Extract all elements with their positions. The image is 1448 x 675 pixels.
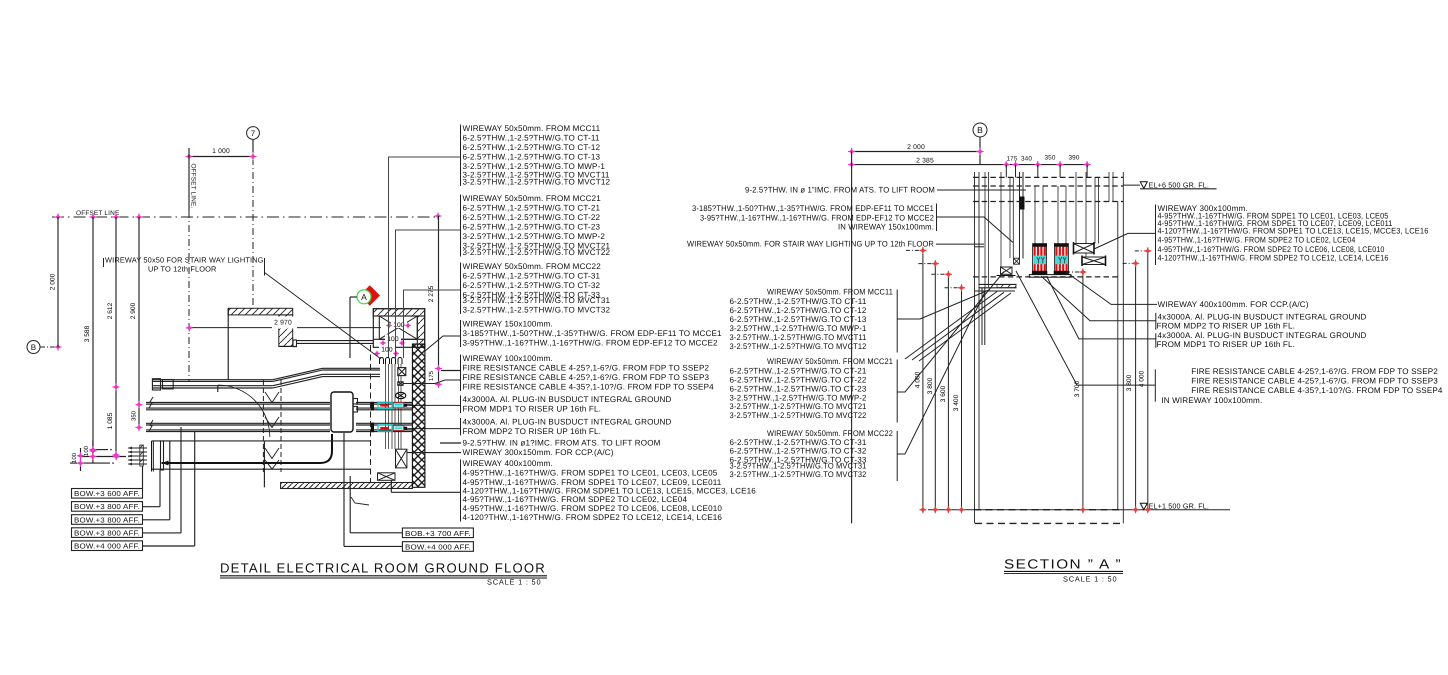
section dim verticals right [1135, 263, 1137, 509]
svg-text:9-2.5?THW. IN ø1?IMC. FROM ATS: 9-2.5?THW. IN ø1?IMC. FROM ATS. TO LIFT … [463, 439, 661, 448]
svg-text:4-120?THW.,1-16?THW/G. FROM SD: 4-120?THW.,1-16?THW/G. FROM SDPE2 TO LCE… [1158, 254, 1389, 263]
svg-text:WIREWAY 50x50 FOR STAIR WAY LI: WIREWAY 50x50 FOR STAIR WAY LIGHTING [105, 256, 264, 265]
dimension 2 900 / 350 vertical [138, 217, 140, 428]
svg-text:2 275: 2 275 [428, 285, 435, 302]
svg-text:3 800: 3 800 [927, 377, 934, 394]
svg-text:WIREWAY 50x50mm. FROM MCC21: WIREWAY 50x50mm. FROM MCC21 [767, 357, 893, 366]
busduct riser housing [162, 434, 333, 463]
section wall/conduit line 11 [1042, 186, 1044, 244]
wireway xbox right 1 [1074, 244, 1095, 254]
svg-text:6-2.5?THW.,1-2.5?THW/G.TO CT-1: 6-2.5?THW.,1-2.5?THW/G.TO CT-11 [463, 134, 600, 143]
svg-text:175: 175 [1006, 156, 1017, 163]
BOB / BOW boxes bottom center [402, 528, 473, 538]
wireway xbox left [1001, 267, 1013, 274]
svg-text:3-2.5?THW.,1-2.5?THW/G.TO MVCT: 3-2.5?THW.,1-2.5?THW/G.TO MVCT32 [730, 470, 867, 479]
floor hatched strip [281, 483, 413, 489]
offset line horizontal [52, 216, 439, 218]
svg-text:3-185?THW.,1-50?THW.,1-35?THW/: 3-185?THW.,1-50?THW.,1-35?THW/G. FROM ED… [463, 329, 723, 338]
svg-text:3-2.5?THW.,1-2.5?THW/G.TO MVCT: 3-2.5?THW.,1-2.5?THW/G.TO MVCT12 [463, 178, 611, 187]
svg-text:350: 350 [131, 410, 138, 421]
svg-text:6-2.5?THW.,1-2.5?THW/G.TO CT-3: 6-2.5?THW.,1-2.5?THW/G.TO CT-32 [730, 447, 867, 456]
grid circle 7 [247, 127, 260, 140]
grid 7 stub [252, 140, 254, 153]
svg-text:FIRE RESISTANCE CABLE 4-25?,1-: FIRE RESISTANCE CABLE 4-25?,1-6?/G. FROM… [1191, 367, 1438, 376]
conduit pair A [146, 402, 330, 404]
svg-text:350: 350 [1044, 155, 1055, 162]
section wall/conduit line 9 [1022, 172, 1024, 259]
svg-text:WIREWAY 50x50mm. FROM MCC11: WIREWAY 50x50mm. FROM MCC11 [767, 288, 893, 297]
wall top-left hatched [228, 308, 293, 315]
svg-text:3-2.5?THW.,1-2.5?THW/G.TO MVCT: 3-2.5?THW.,1-2.5?THW/G.TO MVCT32 [463, 306, 611, 315]
svg-text:FROM MDP2 TO RISER UP 16th FL.: FROM MDP2 TO RISER UP 16th FL. [1157, 322, 1296, 331]
shelf bracket [979, 283, 1017, 285]
wireway run along wall [297, 340, 374, 342]
section wall/conduit line 5 [1000, 172, 1002, 268]
busduct plan symbol 1 [378, 402, 392, 408]
svg-text:FIRE RESISTANCE CABLE 4-25?,1-: FIRE RESISTANCE CABLE 4-25?,1-6?/G. FROM… [463, 364, 710, 373]
svg-text:6-2.5?THW.,1-2.5?THW/G.TO CT-1: 6-2.5?THW.,1-2.5?THW/G.TO CT-13 [730, 315, 867, 324]
section wall/conduit line 3 [984, 172, 986, 288]
svg-text:3-95?THW.,1-16?THW.,1-16?THW/G: 3-95?THW.,1-16?THW.,1-16?THW/G. FROM EDP… [700, 214, 934, 223]
shaft dashed rails [262, 380, 264, 472]
leaders into right text column [388, 156, 461, 158]
section wall/conduit line 13 [1065, 186, 1067, 244]
leaders to 4x3000A notes [407, 404, 461, 406]
svg-text:SCALE 1 : 50: SCALE 1 : 50 [487, 578, 541, 587]
EL+6 level [1140, 182, 1147, 189]
svg-text:3 600: 3 600 [940, 385, 947, 402]
svg-text:100: 100 [83, 445, 90, 456]
stair lighting leader [265, 273, 382, 360]
svg-text:4-95?THW.,1-16?THW/G. FROM SDP: 4-95?THW.,1-16?THW/G. FROM SDPE2 TO LCE0… [1158, 245, 1385, 254]
conduit break marks [149, 397, 153, 408]
svg-text:4-95?THW.,1-16?THW/G. FROM SDP: 4-95?THW.,1-16?THW/G. FROM SDPE1 TO LCE0… [463, 469, 718, 478]
svg-text:4-120?THW.,1-16?THW/G. FROM SD: 4-120?THW.,1-16?THW/G. FROM SDPE1 TO LCE… [1158, 226, 1429, 235]
svg-text:4x3000A. Al. PLUG-IN BUSDUCT I: 4x3000A. Al. PLUG-IN BUSDUCT INTEGRAL GR… [1158, 312, 1367, 321]
svg-text:3-2.5?THW.,1-2.5?THW/G.TO MVCT: 3-2.5?THW.,1-2.5?THW/G.TO MVCT31 [463, 296, 611, 305]
svg-text:WIREWAY 50x50mm. FROM MCC21: WIREWAY 50x50mm. FROM MCC21 [463, 194, 602, 203]
EDP leader [937, 217, 1014, 243]
section wall/conduit line 6 [1009, 177, 1011, 258]
section wall/conduit line 8 [1019, 172, 1021, 259]
shelf diagonals [905, 292, 1011, 362]
svg-text:BOW.+4 000 AFF.: BOW.+4 000 AFF. [74, 542, 140, 551]
svg-text:FIRE RESISTANCE CABLE 4-25?,1-: FIRE RESISTANCE CABLE 4-25?,1-6?/G. FROM… [463, 373, 710, 382]
column 100 dims magenta [391, 321, 407, 329]
svg-text:4-95?THW.,1-16?THW/G. FROM SDP: 4-95?THW.,1-16?THW/G. FROM SDPE2 TO LCE0… [463, 495, 688, 504]
dimension 1 000 [189, 156, 254, 158]
svg-text:2 000: 2 000 [50, 273, 57, 290]
svg-text:WIREWAY 400x100mm.: WIREWAY 400x100mm. [463, 459, 553, 468]
svg-text:WIREWAY 50x50mm. FOR STAIR WAY: WIREWAY 50x50mm. FOR STAIR WAY LIGHTING … [687, 239, 934, 248]
svg-text:B: B [31, 343, 37, 352]
wireway caps below column [380, 358, 384, 365]
svg-text:FROM MDP1 TO RISER UP 16th FL.: FROM MDP1 TO RISER UP 16th FL. [463, 405, 602, 414]
column top hatched [373, 309, 424, 348]
conduit dark blob [1019, 197, 1024, 210]
svg-text:4-95?THW.,1-16?THW/G. FROM SDP: 4-95?THW.,1-16?THW/G. FROM SDPE2 TO LCE0… [463, 504, 723, 513]
svg-text:3-2.5?THW.,1-2.5?THW/G.TO MVCT: 3-2.5?THW.,1-2.5?THW/G.TO MVCT12 [730, 342, 867, 351]
section wall/conduit line 15 [1085, 172, 1087, 258]
svg-text:6-2.5?THW.,1-2.5?THW/G.TO CT-2: 6-2.5?THW.,1-2.5?THW/G.TO CT-22 [730, 375, 867, 384]
section wall/conduit line 4 [988, 172, 990, 288]
wire riser x=385.5 [385, 364, 387, 449]
right wall crosshatched [412, 344, 425, 487]
svg-text:FIRE RESISTANCE CABLE 4-25?,1-: FIRE RESISTANCE CABLE 4-25?,1-6?/G. FROM… [1191, 377, 1438, 386]
wireway crossing wall boxes [398, 368, 406, 376]
svg-text:WIREWAY 100x100mm.: WIREWAY 100x100mm. [463, 354, 553, 363]
svg-text:2 612: 2 612 [107, 302, 114, 319]
svg-text:IN WIREWAY 150x100mm.: IN WIREWAY 150x100mm. [838, 223, 934, 232]
svg-text:6-2.5?THW.,1-2.5?THW/G.TO CT-2: 6-2.5?THW.,1-2.5?THW/G.TO CT-23 [730, 385, 867, 394]
svg-text:100: 100 [381, 347, 393, 354]
dimension 3 588 vertical [92, 217, 94, 451]
svg-text:BOW.+3 800 AFF.: BOW.+3 800 AFF. [74, 502, 140, 511]
ground line EL+1 [928, 509, 1230, 511]
section wall/conduit line 17 [1098, 177, 1100, 244]
leader verticals from text blocks [388, 157, 390, 358]
section wall/conduit line 12 [1057, 186, 1059, 244]
small dims 100/100 lower left [92, 440, 94, 463]
svg-text:390: 390 [1068, 155, 1079, 162]
svg-text:3-2.5?THW.,1-2.5?THW/G.TO MVCT: 3-2.5?THW.,1-2.5?THW/G.TO MVCT22 [463, 248, 611, 257]
svg-text:6-2.5?THW.,1-2.5?THW/G.TO CT-3: 6-2.5?THW.,1-2.5?THW/G.TO CT-31 [730, 438, 867, 447]
svg-text:3-185?THW.,1-50?THW.,1-35?THW/: 3-185?THW.,1-50?THW.,1-35?THW/G. FROM ED… [692, 204, 934, 213]
conduit pair B [146, 422, 330, 424]
busduct plan symbol 2 [378, 425, 392, 431]
svg-text:BOW.+3 600 AFF.: BOW.+3 600 AFF. [74, 489, 140, 498]
extension line [851, 152, 853, 524]
svg-text:OFFSET LINE: OFFSET LINE [76, 210, 120, 217]
svg-text:A: A [361, 292, 367, 302]
fan of wireway lines entering room [128, 447, 147, 449]
svg-text:UP TO 12th FLOOR: UP TO 12th FLOOR [148, 265, 217, 274]
svg-text:340: 340 [1021, 156, 1032, 163]
svg-text:FROM MDP2 TO RISER UP 16th FL.: FROM MDP2 TO RISER UP 16th FL. [463, 427, 602, 436]
section wall/conduit line 14 [1075, 172, 1077, 244]
svg-text:WIREWAY 50x50mm. FROM MCC22: WIREWAY 50x50mm. FROM MCC22 [767, 429, 893, 438]
svg-text:3 800: 3 800 [1126, 374, 1133, 391]
room lower walls [152, 440, 371, 442]
svg-text:SECTION ” A ”: SECTION ” A ” [1004, 557, 1122, 572]
svg-text:3 700: 3 700 [1074, 380, 1081, 397]
grid 7 centerline [252, 158, 254, 310]
offset line vertical [188, 148, 190, 211]
svg-text:3 588: 3 588 [84, 325, 91, 342]
svg-text:4x3000A. Al. PLUG-IN BUSDUCT I: 4x3000A. Al. PLUG-IN BUSDUCT INTEGRAL GR… [463, 395, 672, 404]
wire riser x=395 [394, 364, 396, 449]
dimension 2 000 vertical [57, 217, 59, 347]
svg-text:6-2.5?THW.,1-2.5?THW/G.TO CT-2: 6-2.5?THW.,1-2.5?THW/G.TO CT-21 [730, 367, 867, 376]
EL+1 level [1140, 503, 1147, 510]
svg-text:3-2.5?THW.,1-2.5?THW/G.TO MVCT: 3-2.5?THW.,1-2.5?THW/G.TO MVCT21 [730, 402, 867, 411]
section wall/conduit line 1 [974, 172, 976, 523]
svg-text:2 970: 2 970 [274, 320, 292, 327]
svg-text:WIREWAY 150x100mm.: WIREWAY 150x100mm. [463, 320, 553, 329]
svg-text:BOW.+3 800 AFF.: BOW.+3 800 AFF. [74, 515, 140, 524]
section dim verticals left [922, 250, 924, 509]
svg-text:6-2.5?THW.,1-2.5?THW/G.TO CT-1: 6-2.5?THW.,1-2.5?THW/G.TO CT-12 [463, 143, 601, 152]
busduct base plate [1029, 275, 1071, 278]
svg-text:FIRE RESISTANCE CABLE 4-35?,1-: FIRE RESISTANCE CABLE 4-35?,1-10?/G. FRO… [1191, 386, 1443, 395]
section wall/conduit line 21 [1122, 172, 1124, 523]
svg-text:6-2.5?THW.,1-2.5?THW/G.TO CT-2: 6-2.5?THW.,1-2.5?THW/G.TO CT-22 [463, 213, 601, 222]
svg-text:DETAIL ELECTRICAL ROOM GROUND: DETAIL ELECTRICAL ROOM GROUND FLOOR [220, 561, 546, 576]
svg-text:6-2.5?THW.,1-2.5?THW/G.TO CT-3: 6-2.5?THW.,1-2.5?THW/G.TO CT-32 [463, 281, 601, 290]
svg-text:BOB.+3 700 AFF.: BOB.+3 700 AFF. [405, 529, 471, 538]
section marker A [360, 285, 381, 306]
section wall/conduit line 16 [1094, 177, 1096, 244]
svg-text:3-2.5?THW.,1-2.5?THW/G.TO MVCT: 3-2.5?THW.,1-2.5?THW/G.TO MVCT22 [730, 411, 867, 420]
wire riser x=398.5 [398, 364, 400, 449]
break mark [351, 497, 369, 505]
wireway xbox right 2 [1082, 257, 1106, 265]
svg-text:EL+6 500 GR. FL.: EL+6 500 GR. FL. [1149, 180, 1210, 189]
svg-text:3-2.5?THW.,1-2.5?THW/G.TO MWP-: 3-2.5?THW.,1-2.5?THW/G.TO MWP-1 [730, 324, 867, 333]
section wall/conduit line 7 [1012, 177, 1014, 258]
svg-text:6-2.5?THW.,1-2.5?THW/G.TO CT-3: 6-2.5?THW.,1-2.5?THW/G.TO CT-31 [463, 272, 601, 281]
svg-text:7: 7 [251, 129, 256, 138]
svg-text:3 400: 3 400 [953, 394, 960, 411]
svg-text:WIREWAY 50x50mm. FROM MCC11: WIREWAY 50x50mm. FROM MCC11 [463, 124, 601, 133]
svg-text:2 385: 2 385 [916, 157, 934, 164]
dimension 2 612 / 1 085 vertical [115, 217, 117, 455]
stair leader [936, 243, 984, 245]
svg-text:FIRE RESISTANCE CABLE 4-35?,1-: FIRE RESISTANCE CABLE 4-35?,1-10?/G. FRO… [463, 383, 715, 392]
grid circle B section [973, 123, 987, 137]
upper wireway band [152, 379, 272, 381]
busduct section 2 [1054, 247, 1068, 272]
svg-text:2 000: 2 000 [907, 144, 925, 151]
svg-text:100: 100 [71, 452, 78, 463]
svg-text:BOW.+3 800 AFF.: BOW.+3 800 AFF. [74, 528, 140, 537]
wire riser x=392 [391, 364, 393, 449]
svg-text:1 000: 1 000 [212, 148, 230, 155]
lower wireway boxes on wall [396, 449, 407, 468]
svg-text:EL+1 500 GR. FL.: EL+1 500 GR. FL. [1149, 501, 1210, 510]
svg-text:4x3000A. Al. PLUG-IN BUSDUCT I: 4x3000A. Al. PLUG-IN BUSDUCT INTEGRAL GR… [1158, 331, 1367, 340]
svg-text:WIREWAY 400x100mm. FOR CCP.(A/: WIREWAY 400x100mm. FOR CCP.(A/C) [1158, 300, 1309, 309]
svg-text:WIREWAY 50x50mm. FROM MCC22: WIREWAY 50x50mm. FROM MCC22 [463, 262, 602, 271]
section wall/conduit line 18 [1108, 172, 1110, 202]
section wall/conduit line 10 [1034, 186, 1036, 244]
lower left steps [975, 290, 1015, 292]
wire riser x=388.5 [388, 364, 390, 449]
svg-text:3-2.5?THW.,1-2.5?THW/G.TO MVCT: 3-2.5?THW.,1-2.5?THW/G.TO MVCT11 [730, 333, 867, 342]
ATS leader [937, 189, 1026, 191]
svg-text:WIREWAY 300x150mm. FOR CCP.(A/: WIREWAY 300x150mm. FOR CCP.(A/C) [463, 448, 614, 457]
door arc [218, 385, 270, 437]
svg-text:6-2.5?THW.,1-2.5?THW/G.TO CT-1: 6-2.5?THW.,1-2.5?THW/G.TO CT-11 [730, 297, 867, 306]
svg-text:4 000: 4 000 [1138, 370, 1145, 387]
BOW elevation boxes [72, 489, 143, 499]
svg-text:6-2.5?THW.,1-2.5?THW/G.TO CT-1: 6-2.5?THW.,1-2.5?THW/G.TO CT-13 [463, 153, 601, 162]
grid circle B left [27, 341, 40, 354]
wireway xbox tiny [1014, 258, 1020, 264]
section right leaders [1094, 233, 1156, 249]
BOW box leader lines [142, 466, 144, 489]
section dim 3 700 [1082, 272, 1084, 510]
section wall/conduit line 2 [978, 172, 980, 510]
svg-text:4 000: 4 000 [914, 371, 921, 388]
dimension 2 275 vertical [438, 216, 440, 384]
svg-text:2 900: 2 900 [130, 302, 137, 319]
svg-text:1 085: 1 085 [107, 412, 114, 429]
svg-text:4-120?THW.,1-16?THW/G. FROM SD: 4-120?THW.,1-16?THW/G. FROM SDPE2 TO LCE… [463, 513, 723, 522]
section wall/conduit line 20 [1117, 202, 1119, 511]
svg-text:3-2.5?THW.,1-2.5?THW/G.TO MWP-: 3-2.5?THW.,1-2.5?THW/G.TO MWP-2 [463, 232, 606, 241]
svg-text:B: B [977, 125, 983, 135]
svg-text:3-2.5?THW.,1-2.5?THW/G.TO MVCT: 3-2.5?THW.,1-2.5?THW/G.TO MVCT31 [730, 461, 867, 470]
busduct section 1 [1033, 247, 1047, 272]
dimension 2 385 + 175/340/350/390 [852, 164, 1088, 166]
svg-text:6-2.5?THW.,1-2.5?THW/G.TO CT-1: 6-2.5?THW.,1-2.5?THW/G.TO CT-12 [730, 306, 867, 315]
svg-text:175: 175 [428, 370, 435, 381]
svg-text:4x3000A. Al. PLUG-IN BUSDUCT I: 4x3000A. Al. PLUG-IN BUSDUCT INTEGRAL GR… [463, 418, 672, 427]
section wall/conduit line 19 [1112, 172, 1114, 202]
conduit oval [396, 392, 406, 398]
MCC leader diagonals [897, 290, 990, 320]
svg-text:6-2.5?THW.,1-2.5?THW/G.TO CT-2: 6-2.5?THW.,1-2.5?THW/G.TO CT-23 [463, 223, 601, 232]
svg-text:3-95?THW.,1-16?THW.,1-16?THW/G: 3-95?THW.,1-16?THW.,1-16?THW/G. FROM EDP… [463, 339, 719, 348]
svg-text:6-2.5?THW.,1-2.5?THW/G.TO CT-2: 6-2.5?THW.,1-2.5?THW/G.TO CT-21 [463, 204, 601, 213]
svg-text:OFFSET LINE.: OFFSET LINE. [189, 164, 196, 209]
svg-text:SCALE 1 : 50: SCALE 1 : 50 [1063, 575, 1117, 584]
svg-text:IN WIREWAY 100x100mm.: IN WIREWAY 100x100mm. [1161, 396, 1262, 405]
svg-text:9-2.5?THW. IN ø 1”IMC. FROM AT: 9-2.5?THW. IN ø 1”IMC. FROM ATS. TO LIFT… [745, 185, 935, 194]
svg-text:BOW.+4 000 AFF.: BOW.+4 000 AFF. [405, 543, 471, 552]
svg-text:FROM MDP1 TO RISER UP 16th FL.: FROM MDP1 TO RISER UP 16th FL. [1157, 340, 1296, 349]
dimension 2 970 [189, 327, 381, 329]
dimension 2 000 section [852, 151, 980, 153]
section dashed slab lines [973, 176, 1123, 178]
wire riser x=401 [400, 364, 402, 449]
svg-text:3-2.5?THW.,1-2.5?THW/G.TO MWP-: 3-2.5?THW.,1-2.5?THW/G.TO MWP-2 [730, 393, 867, 402]
svg-text:4-95?THW.,1-16?THW/G. FROM SDP: 4-95?THW.,1-16?THW/G. FROM SDPE2 TO LCE0… [1158, 236, 1356, 245]
